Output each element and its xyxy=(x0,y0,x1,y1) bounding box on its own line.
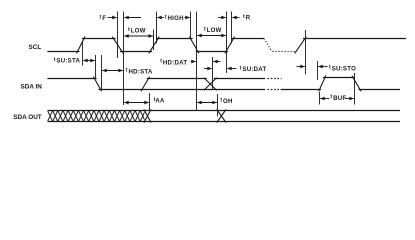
wire SCL high 3 xyxy=(232,38,265,40)
node guide tSU:STA left xyxy=(82,41,84,66)
svg-text:t: t xyxy=(243,14,245,20)
node guide tBUF right xyxy=(354,73,356,105)
svg-text:t: t xyxy=(204,26,206,32)
svg-text:SU:STA: SU:STA xyxy=(56,58,80,65)
node guide tOH right xyxy=(217,94,219,117)
wire SCL dotted falling edge xyxy=(264,39,272,52)
node guide SCL fall2 long xyxy=(196,12,198,111)
svg-text:t: t xyxy=(128,27,130,33)
node guide tSU:STO right xyxy=(317,61,319,80)
svg-text:OH: OH xyxy=(223,98,233,105)
wire SDA IN high rail 3 xyxy=(214,78,265,80)
wire SDA IN falling edge START xyxy=(93,77,101,92)
dimension tR xyxy=(218,17,226,19)
wire SCL high 4 xyxy=(303,38,406,40)
wire SDA IN low end xyxy=(359,89,401,91)
node guide tHD:STA left xyxy=(101,55,103,90)
wire SDA OUT band top rail xyxy=(48,110,401,112)
svg-text:R: R xyxy=(246,15,251,22)
wire SCL rising edge 3 (tR) xyxy=(225,37,235,54)
svg-text:SDA IN: SDA IN xyxy=(21,83,43,90)
node guide tR right xyxy=(231,12,233,44)
wire SDA IN high start xyxy=(47,78,96,80)
svg-text:HIGH: HIGH xyxy=(168,15,184,22)
dimension tAA xyxy=(124,102,149,104)
wire SDA IN rising edge STOP xyxy=(319,76,326,92)
wire SCL falling edge 1 (tF) xyxy=(112,37,123,54)
svg-text:t: t xyxy=(330,94,332,100)
svg-text:t: t xyxy=(329,65,331,71)
wire SDA IN falling edge end xyxy=(352,76,361,92)
wire SDA OUT hatch end X xyxy=(144,109,151,122)
svg-text:t: t xyxy=(54,57,56,63)
svg-text:AA: AA xyxy=(155,97,165,104)
dimension tF arrows xyxy=(108,17,117,19)
svg-text:t: t xyxy=(165,15,167,21)
wire SCL rising edge 2 xyxy=(149,37,159,54)
SDA OUT crosshatch region xyxy=(48,111,145,122)
wire SCL high 1 xyxy=(82,38,116,40)
svg-text:F: F xyxy=(102,15,106,22)
wire SDA IN rising edge mid xyxy=(141,77,150,92)
wire SDA IN high rail 2 xyxy=(147,78,207,80)
node guide tLOW1 right xyxy=(153,30,155,51)
svg-text:LOW: LOW xyxy=(207,27,222,34)
node guide tSU:STA right xyxy=(95,55,97,78)
svg-text:HD:STA: HD:STA xyxy=(129,68,153,75)
svg-text:t: t xyxy=(126,68,128,74)
node guide tHIGH right xyxy=(190,12,192,40)
node guide tR left xyxy=(226,12,228,74)
node guide tHIGH left xyxy=(156,12,158,44)
wire SDA IN low rail resumes xyxy=(282,89,322,91)
wire SCL falling edge 2 xyxy=(189,37,199,54)
wire SCL low 2 xyxy=(196,51,228,53)
wire SDA IN high plateau STOP xyxy=(323,77,355,79)
svg-text:t: t xyxy=(100,14,102,20)
wire SDA IN crossover X xyxy=(204,78,217,91)
svg-text:SDA OUT: SDA OUT xyxy=(13,114,42,121)
wire SCL high 2 xyxy=(156,38,193,40)
wire SDA OUT band bottom rail xyxy=(48,121,401,123)
wire SDA IN high rail dots xyxy=(268,78,282,80)
node guide tBUF left xyxy=(319,92,321,105)
svg-text:SU:STO: SU:STO xyxy=(332,65,356,72)
svg-text:t: t xyxy=(160,59,162,65)
dimension tBUF xyxy=(320,98,329,100)
svg-text:BUF: BUF xyxy=(333,95,346,102)
wire SDA IN low rail xyxy=(99,89,266,91)
wire SCL low start xyxy=(47,51,79,53)
dimension tSU:DAT xyxy=(204,68,212,70)
dimension tOH xyxy=(197,102,217,104)
wire SCL dotted low xyxy=(273,51,297,53)
node guide tF right long xyxy=(123,12,125,106)
dimension tHD:STA xyxy=(102,70,123,72)
node guide tSU:STO left xyxy=(305,30,307,75)
svg-text:LOW: LOW xyxy=(131,28,146,35)
wire SCL low 1 xyxy=(120,51,152,53)
wire SDA OUT crossover X xyxy=(217,110,226,123)
svg-text:SU:DAT: SU:DAT xyxy=(242,66,266,73)
node guide SDA change xyxy=(212,57,214,90)
wire SCL rising edge 4 xyxy=(295,37,307,54)
wire SCL rising edge 1 xyxy=(77,37,86,54)
svg-text:HD:DAT: HD:DAT xyxy=(163,59,187,66)
dimension tSU:STO xyxy=(297,66,305,68)
wire SDA IN low rail dots xyxy=(268,89,282,91)
node guide tF left xyxy=(117,12,119,59)
svg-text:SCL: SCL xyxy=(29,44,42,51)
svg-text:t: t xyxy=(240,65,242,71)
node guide tAA right xyxy=(149,93,151,111)
